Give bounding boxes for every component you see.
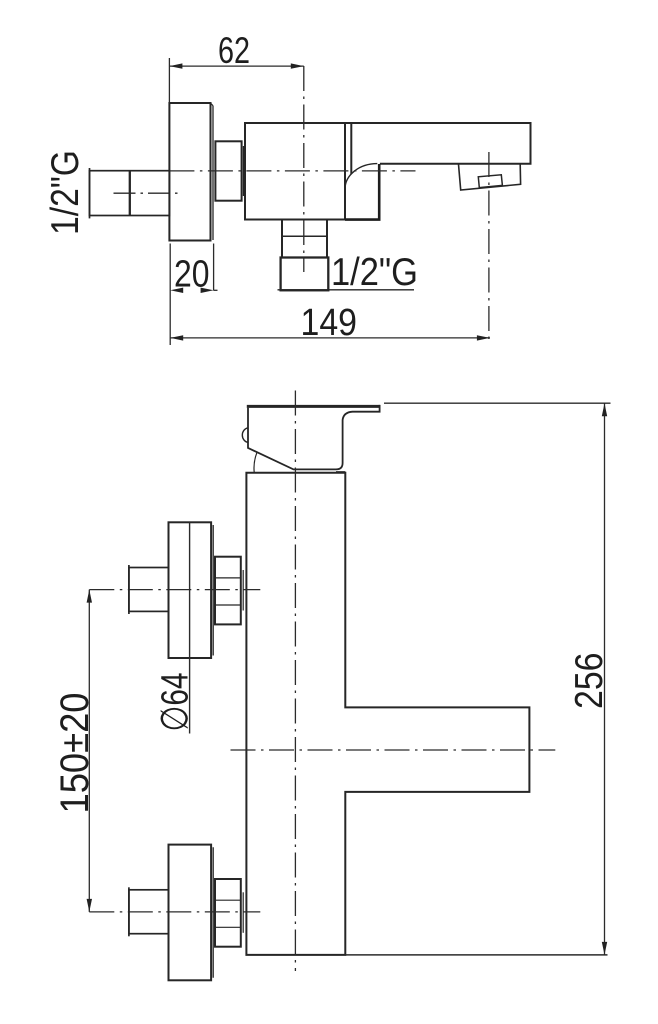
- shower outlet (top view): [278, 220, 415, 291]
- spout (top view): [345, 123, 531, 164]
- aerator centerline / extension: [488, 152, 490, 345]
- svg-text:62: 62: [218, 30, 250, 71]
- body bottom extension line: [345, 954, 607, 956]
- wall flange (top view): [169, 103, 213, 241]
- main horizontal centerline (top view): [169, 170, 415, 172]
- aerator inner ring: [478, 175, 502, 188]
- svg-text:150±20: 150±20: [53, 693, 97, 814]
- bottom S-union: supply pipe: [129, 887, 169, 936]
- top S-union centerline: [89, 589, 260, 591]
- supply pipe (top view): [90, 168, 170, 218]
- phi64 leader line: [189, 522, 191, 733]
- mixer body (top view): [245, 123, 351, 220]
- top S-union: supply pipe: [129, 565, 169, 614]
- dimension 149: [170, 337, 490, 339]
- bottom S-union: nut: [215, 879, 243, 947]
- handle lever: [242, 405, 379, 473]
- vertical centerline (side view): [294, 391, 296, 972]
- svg-text:∅64: ∅64: [155, 673, 197, 732]
- top S-union: nut: [215, 557, 243, 625]
- vertical centerline of body (top view): [303, 66, 305, 272]
- svg-text:1/2"G: 1/2"G: [44, 150, 87, 235]
- bottom S-union: flange: [169, 845, 214, 981]
- spout support block (top view): [345, 164, 379, 220]
- supply pipe centerline: [114, 192, 180, 194]
- bottom S-union centerline: [89, 911, 260, 913]
- svg-text:20: 20: [174, 253, 210, 295]
- dimension 20: [170, 244, 217, 346]
- mixer body with spout bar (side view): [246, 473, 529, 955]
- svg-text:149: 149: [301, 302, 358, 344]
- top S-union: flange: [169, 522, 214, 658]
- svg-text:256: 256: [568, 653, 611, 710]
- spout underside fillet: [345, 164, 377, 189]
- horizontal centerline through spout bar (side view): [231, 749, 556, 751]
- locking nut (top view): [215, 141, 243, 200]
- aerator (top view): [459, 164, 521, 190]
- dimension 62: [169, 58, 303, 103]
- dimension 256: [384, 403, 611, 955]
- svg-text:1/2"G: 1/2"G: [331, 251, 418, 294]
- dimension 150±20: [88, 590, 90, 912]
